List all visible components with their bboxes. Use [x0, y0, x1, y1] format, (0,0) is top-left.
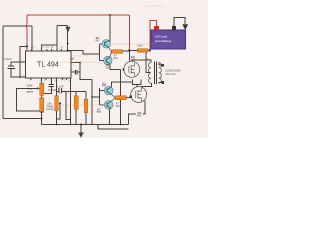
wire C2 bottom lead	[42, 87, 52, 94]
potentiometer wiper arrow	[37, 87, 40, 89]
label Q2 BC 557	[106, 63, 111, 70]
svg-text:540: 540	[131, 57, 136, 61]
wire ground jog lower	[98, 125, 129, 130]
svg-text:ohm: ohm	[115, 104, 120, 108]
wire base stub Q2	[100, 60, 104, 62]
wire gate2 to mosfet2	[126, 97, 130, 99]
wire mosfet2 drain stub	[136, 85, 138, 87]
terminal T2 gate pad	[130, 96, 132, 98]
label R3 10k PWM control	[46, 102, 54, 112]
wire Q3 emitter diag	[111, 94, 116, 98]
wire battery positive leg	[150, 21, 157, 51]
svg-text:swagatam innovations homemade: swagatam innovations homemade circ	[57, 102, 112, 106]
junction dots	[19, 14, 151, 125]
wire pot top stub	[41, 78, 43, 83]
wire R3 wiper loop	[57, 103, 61, 119]
wire R4 top stub	[75, 91, 77, 95]
wire Q3 collector diag	[110, 85, 113, 88]
svg-text:homemade circuits: homemade circuits	[141, 4, 165, 8]
wire pin to R3	[56, 78, 58, 96]
resistor R3 10k PWM	[55, 96, 59, 111]
svg-text:Tr: Tr	[147, 57, 150, 61]
resistor R5	[84, 99, 88, 112]
wire center tap	[146, 52, 150, 73]
mosfet T1 IRF540 circle	[124, 61, 140, 77]
wire left ground return	[3, 118, 41, 120]
terminal battery positive	[154, 26, 159, 30]
node R5 base tie	[91, 96, 93, 98]
ground symbol near IC	[65, 27, 70, 33]
potentiometer R1 100K body	[40, 83, 44, 95]
svg-text:540: 540	[137, 114, 142, 118]
svg-text:ohm: ohm	[113, 56, 118, 60]
wire base stub Q3	[100, 90, 105, 92]
node R3 bus	[56, 124, 58, 126]
wire red hop over ground wire	[25, 25, 28, 28]
transistor Q2 BC557	[104, 56, 113, 65]
wire base stub Q4	[100, 104, 105, 106]
label Q3 BC 547	[102, 81, 107, 87]
wire +12V red rail	[27, 14, 129, 16]
svg-text:547: 547	[95, 39, 100, 43]
wire 10-ohm node	[129, 49, 150, 51]
node output A	[67, 50, 69, 52]
label R7 4.7 ohm	[115, 102, 120, 109]
wire Q4 collector to bus	[109, 109, 111, 125]
svg-text:AC Out: AC Out	[165, 72, 175, 76]
wire mosfet2 source path	[129, 101, 145, 125]
wire R5 bottom	[85, 113, 87, 125]
node Vcc branch	[26, 45, 28, 47]
wire C3 right lead down	[61, 91, 70, 119]
pin numbers bottom row	[29, 80, 70, 82]
wire top-left horizontal	[3, 25, 32, 27]
svg-text:557: 557	[106, 66, 111, 70]
wire IC corner pin to bus	[70, 78, 72, 125]
svg-text:0.1uF: 0.1uF	[56, 84, 63, 88]
label R1 100K freq adjust	[26, 83, 33, 93]
pin numbers top row	[25, 47, 69, 49]
wire pot to R2	[41, 95, 43, 98]
wire ground bus	[42, 124, 129, 126]
svg-text:0.01uF: 0.01uF	[48, 88, 57, 92]
node ground column bus	[120, 124, 122, 126]
wire Q4 emitter diag	[111, 98, 116, 102]
label T2 IRF 540	[137, 111, 142, 118]
resistor R2 below pot	[40, 98, 44, 112]
svg-text:homemadec: homemadec	[72, 53, 90, 57]
wire pair2 collector riser	[112, 82, 133, 87]
wire to pair2 base rail	[92, 96, 100, 98]
wire IC feedback pin right	[71, 62, 80, 64]
wire R4 bottom to bus	[75, 109, 77, 124]
wire C2 top lead	[50, 78, 52, 84]
wire drop to IC pin 4	[31, 26, 33, 51]
label 220V/120V AC Out	[165, 68, 181, 76]
node rail Q1 collector	[109, 14, 111, 16]
node ground return	[41, 118, 43, 120]
wire Q2 collector down	[110, 64, 121, 69]
wire IC pin8 stub	[71, 58, 73, 60]
wire Q2 collector diag	[109, 63, 111, 65]
svg-text:557: 557	[97, 110, 102, 114]
bottom white band	[0, 138, 208, 150]
capacitor C3 0.1uF plates	[59, 88, 61, 93]
wire C3 left lead	[57, 90, 60, 92]
resistor R7 4.7 ohm gate2	[116, 96, 127, 100]
wire feedback column to bus	[91, 80, 93, 125]
terminal AC out bottom	[161, 81, 164, 84]
resistor R4	[74, 96, 78, 110]
node 10-ohm left	[128, 49, 130, 51]
wire output A to pair1 bases	[68, 51, 100, 54]
wire Q1 emitter diag	[109, 47, 112, 51]
transformer TR1 core	[155, 61, 157, 84]
wire Q2 emitter diag	[110, 51, 112, 57]
wire R5 top stub	[85, 91, 87, 99]
transistor Q1 BC547	[102, 40, 111, 49]
svg-text:12V Lead: 12V Lead	[155, 35, 168, 39]
terminal T1 gate pad	[122, 68, 124, 70]
node center tap	[149, 49, 151, 51]
wire Q4 collector diag	[110, 107, 111, 110]
svg-text:swagatam innovations hom: swagatam innovations hom	[62, 60, 101, 64]
svg-text:547: 547	[102, 84, 107, 88]
pin numbers sides	[22, 58, 75, 78]
wire R4 R5 top tie	[66, 90, 86, 92]
wire battery negative to ground	[174, 17, 185, 26]
wire secondary top lead	[159, 63, 162, 66]
transistor Q3 BC547	[104, 86, 113, 95]
wire C1 bottom to IC pin1	[11, 68, 26, 77]
IC top pin stubs	[32, 49, 62, 51]
wire red drop to IC pin 12	[26, 15, 28, 51]
wire pot wiper feedback box	[16, 89, 41, 112]
IC bottom pin stubs	[31, 78, 66, 80]
wire loop riser	[56, 26, 58, 45]
wire red drop to 10-ohm node	[128, 15, 130, 50]
wire soft-start cap right lead	[77, 71, 80, 73]
resistor R6 4.7 ohm gate1	[112, 50, 123, 54]
label T1 IRF 540	[131, 55, 136, 62]
ground symbol battery	[182, 24, 188, 30]
wire left rail	[2, 26, 4, 119]
wire base stub Q1	[100, 43, 103, 45]
resistor R8 10 ohm	[137, 49, 148, 53]
potentiometer R3 wiper arrow	[58, 102, 61, 104]
wire feedback down	[80, 63, 92, 80]
label Q4 BC 557	[97, 107, 102, 113]
svg-text:Acid Battery: Acid Battery	[155, 39, 172, 43]
label battery text	[155, 35, 172, 44]
svg-text:TL 494: TL 494	[37, 61, 59, 69]
capacitor C2 0.01uF plates	[48, 85, 54, 87]
wire R2 bottom to bus	[41, 112, 43, 124]
wire ground column	[120, 69, 122, 124]
wire secondary bottom lead	[159, 81, 162, 84]
transformer TR1 primary winding	[148, 63, 151, 84]
terminal AC out top	[161, 64, 164, 67]
ground symbol bottom bus	[78, 133, 84, 138]
wire mosfet2 drain to transformer	[141, 83, 151, 86]
wire IC pin 11 up	[67, 26, 69, 51]
label R6 4.7 ohm	[113, 53, 118, 60]
mosfet T2 IRF540 circle	[131, 87, 147, 103]
label T2 IRF 540 background	[136, 111, 143, 117]
battery B1 12V lead acid	[151, 30, 186, 49]
svg-text:adjust: adjust	[26, 90, 33, 94]
wire mosfet1 source box	[133, 79, 142, 84]
wire Q1 collector to rail	[109, 15, 111, 42]
wire Vcc branch left	[20, 46, 27, 77]
label Q1 BC 547	[95, 36, 100, 42]
node pair1 base rail	[99, 44, 101, 61]
svg-text:homemadecircuitsandschem: homemadecircuitsandschem	[113, 42, 154, 46]
wire gate1 from R6 to node then mosfet	[123, 51, 130, 62]
wire Q1 collector diag	[109, 40, 111, 41]
node pair2 base rail	[99, 88, 101, 105]
terminal battery negative	[172, 26, 176, 30]
wire R3 bottom to bus	[56, 111, 58, 125]
transistor Q4 BC557	[104, 100, 113, 109]
transformer TR1 secondary winding	[159, 63, 162, 84]
wire pins 13-14-15 loop	[42, 45, 57, 51]
wire soft-start cap left lead	[71, 71, 75, 73]
IC U1 TL494 body	[26, 51, 71, 78]
node bus arrow	[80, 124, 82, 126]
wire ground arrow stem	[80, 125, 82, 133]
node R2 bottom	[41, 111, 43, 113]
wire IC pin2 to C1 top	[11, 62, 26, 65]
capacitor C4 soft-start plates	[75, 70, 77, 75]
svg-text:0.1uF: 0.1uF	[5, 57, 12, 61]
wire ground link horizontal	[57, 25, 68, 27]
capacitor C1 0.1uF plates	[7, 66, 14, 68]
svg-text:control: control	[46, 107, 54, 111]
wire mosfet1 drain to transformer top	[132, 60, 151, 63]
